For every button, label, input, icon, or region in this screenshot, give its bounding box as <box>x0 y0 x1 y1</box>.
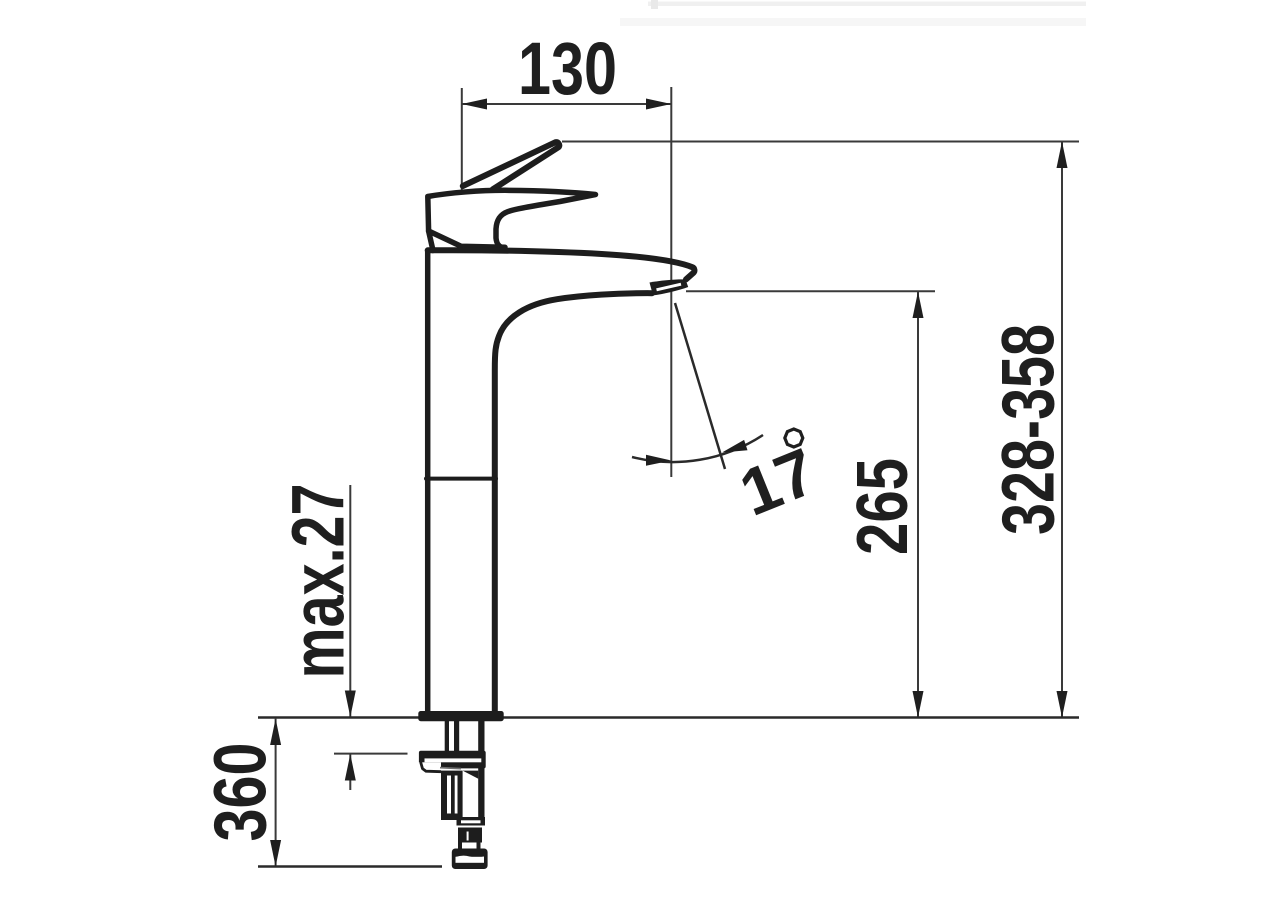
degree symbol octagon <box>785 429 803 447</box>
faint jpeg artifact band top <box>648 2 1086 7</box>
svg-text:360: 360 <box>199 743 282 842</box>
arrow 265 top <box>913 292 924 319</box>
dimension line 360 <box>275 719 277 867</box>
bottom reference line 360 <box>258 865 442 868</box>
arrow max27 down (tip at countertop) <box>345 691 356 718</box>
arrow 328-358 bottom <box>1057 691 1068 718</box>
head chin diagonal <box>429 231 505 247</box>
hose top wedge to right tube <box>463 771 479 779</box>
17deg arc <box>632 435 763 462</box>
max.27 tick line <box>334 753 408 755</box>
extension line right of 130 / vertical through spout <box>670 87 672 477</box>
arrow 328-358 top <box>1057 142 1068 169</box>
arrow max27 up (tip at tick below) <box>345 754 356 781</box>
dimension line 265 <box>917 292 919 718</box>
arrow 130 right <box>646 99 671 110</box>
aerator <box>650 279 689 295</box>
arrow 265 bottom <box>913 691 924 718</box>
dimension line max.27 lower tail <box>349 754 351 790</box>
dimension line max.27 upper <box>349 485 351 717</box>
white lower-left of gasket <box>418 762 441 769</box>
reference line top (lever tip to 328-358) <box>562 141 1079 143</box>
arrow 360 bottom <box>270 840 281 867</box>
arc arrow right (points left-down, tip at slant line) <box>722 440 748 453</box>
arc arrow left (points right, tip at vertical line) <box>646 455 671 466</box>
dimension line 328-358 <box>1061 142 1063 718</box>
white slot in washer <box>425 758 482 762</box>
svg-text:max.27: max.27 <box>277 484 360 679</box>
extension line left of 130 <box>461 88 463 192</box>
base plate <box>418 711 503 721</box>
hose block left <box>441 771 463 820</box>
svg-text:265: 265 <box>843 458 923 555</box>
shank tube strokes <box>445 721 485 818</box>
column left edge <box>425 250 431 711</box>
body / spout top and tip and underside <box>428 250 695 279</box>
svg-text:130: 130 <box>518 27 617 110</box>
reference line 265 top <box>686 290 935 292</box>
countertop line <box>258 716 1079 719</box>
dimension line 130 <box>462 103 671 105</box>
svg-text:328-358: 328-358 <box>987 324 1070 535</box>
mixer head outline <box>428 190 596 250</box>
arrow 130 left <box>462 99 487 110</box>
washer / nut assembly block <box>419 751 486 769</box>
right supply tube <box>478 721 484 818</box>
connector big block <box>458 828 482 843</box>
17deg slant line <box>675 303 725 469</box>
gasket inner slant smear <box>440 768 461 769</box>
connector lower sides <box>458 843 462 850</box>
arrowheads <box>270 99 1067 867</box>
arrow 360 top <box>270 719 281 745</box>
column divider line <box>426 477 496 481</box>
connector top band <box>457 817 486 826</box>
lever handle <box>463 142 559 189</box>
hose end cap <box>452 849 488 870</box>
gasket left outline <box>421 758 441 772</box>
